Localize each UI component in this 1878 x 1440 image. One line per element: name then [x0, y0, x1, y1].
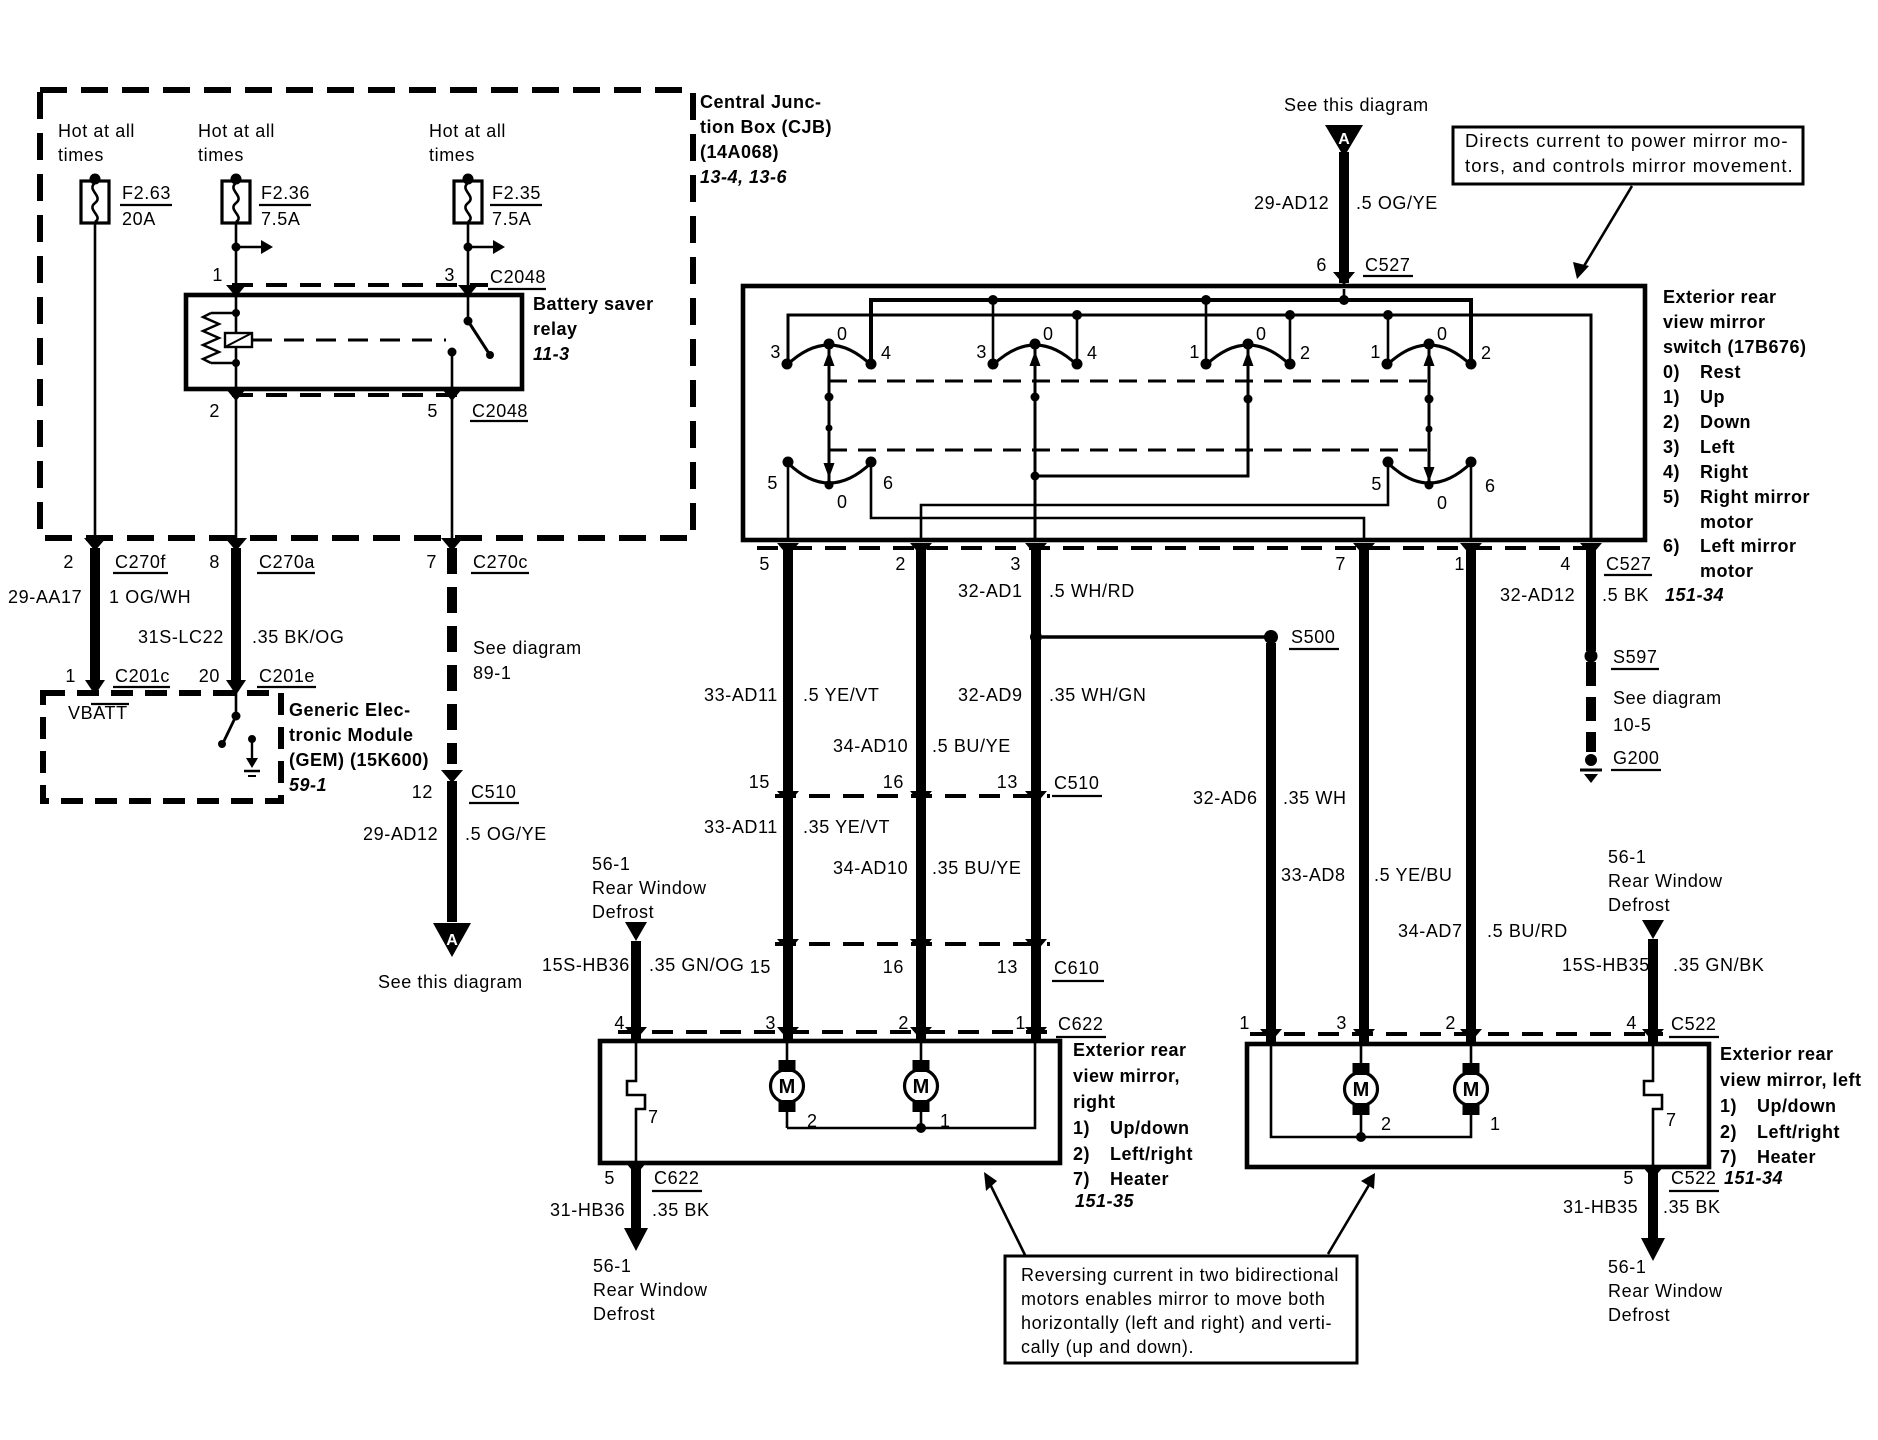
svg-text:34-AD10: 34-AD10	[833, 858, 908, 878]
off-page arrow A (bottom of left branch)	[433, 923, 471, 957]
relay coil box symbol	[225, 333, 252, 347]
svg-text:3: 3	[1336, 1013, 1347, 1033]
exterior rear view mirror right box	[600, 1041, 1060, 1163]
svg-text:See diagram: See diagram	[473, 638, 582, 658]
svg-text:20A: 20A	[122, 209, 156, 229]
svg-text:C2048: C2048	[472, 401, 528, 421]
svg-text:Hot at all: Hot at all	[429, 121, 506, 141]
svg-text:1): 1)	[1720, 1096, 1737, 1116]
svg-text:2: 2	[807, 1111, 818, 1131]
Generic Electronic Module (GEM) dashed box	[43, 693, 281, 801]
bus2 junction sw4 contact 1	[1383, 310, 1393, 320]
motor M up/down (right mirror)	[779, 1060, 796, 1072]
svg-text:7: 7	[648, 1107, 659, 1127]
branch wire to splice S500	[1042, 635, 1266, 638]
svg-text:C610: C610	[1054, 958, 1099, 978]
svg-text:Down: Down	[1700, 412, 1751, 432]
svg-text:G200: G200	[1613, 748, 1659, 768]
riser sw3 contact 1	[1205, 300, 1208, 364]
motor M left/right (right mirror)	[913, 1060, 930, 1072]
svg-text:1: 1	[1454, 554, 1465, 574]
switch pin 7 at C527	[1353, 543, 1375, 556]
thick wire 31-HB35 .35 BK	[1648, 1167, 1658, 1238]
svg-text:0: 0	[1437, 324, 1448, 344]
switch pin 3 at C527	[1025, 543, 1047, 556]
svg-text:1: 1	[940, 1111, 951, 1131]
svg-text:15S-HB36: 15S-HB36	[542, 955, 630, 975]
svg-text:34-AD7: 34-AD7	[1398, 921, 1463, 941]
svg-text:56-1: 56-1	[593, 1256, 631, 1276]
svg-text:M: M	[1353, 1079, 1370, 1101]
svg-text:31-HB36: 31-HB36	[550, 1200, 625, 1220]
motor return bus to pin 1 (right mirror)	[787, 1043, 1035, 1128]
svg-text:33-AD8: 33-AD8	[1281, 865, 1346, 885]
pointer line to left mirror box	[1328, 1185, 1369, 1254]
svg-text:6: 6	[1485, 476, 1496, 496]
Central Junction Box (CJB) dashed enclosure	[40, 90, 693, 538]
heater element (right mirror)	[627, 1043, 645, 1161]
svg-text:6): 6)	[1663, 536, 1680, 556]
svg-text:motor: motor	[1700, 512, 1754, 532]
thick wire 15S-HB35 .35 GN/BK	[1648, 939, 1658, 1044]
svg-text:1): 1)	[1663, 387, 1680, 407]
mechanical rail 2 dashed	[829, 449, 1429, 452]
svg-text:.35 GN/BK: .35 GN/BK	[1673, 955, 1764, 975]
svg-text:59-1: 59-1	[289, 775, 327, 795]
svg-text:16: 16	[883, 772, 904, 792]
svg-text:C527: C527	[1365, 255, 1410, 275]
svg-text:10-5: 10-5	[1613, 715, 1651, 735]
riser sw2 contact 3	[992, 300, 995, 361]
svg-text:See this diagram: See this diagram	[1284, 95, 1429, 115]
svg-text:.5 OG/YE: .5 OG/YE	[1356, 193, 1438, 213]
arrow at C522 pin 1	[1260, 1029, 1282, 1042]
connector C610 dashed line	[775, 942, 1050, 946]
thick wire 31-HB36 .35 BK	[631, 1163, 641, 1228]
exterior rear view mirror switch box (17B676)	[743, 286, 1645, 540]
svg-text:times: times	[198, 145, 244, 165]
svg-text:C527: C527	[1606, 554, 1651, 574]
fuse F2.63 top terminal	[90, 174, 101, 185]
branch arrowhead right (F2.35)	[493, 240, 505, 254]
pin 3 entry arrow into relay	[458, 285, 478, 297]
svg-text:5: 5	[759, 554, 770, 574]
fuse F2.63	[81, 181, 109, 223]
svg-text:.5 OG/YE: .5 OG/YE	[465, 824, 547, 844]
arrow at C510 pin 13	[1025, 791, 1047, 804]
svg-text:151-35: 151-35	[1075, 1191, 1135, 1211]
switch pin 2 at C527	[910, 543, 932, 556]
svg-text:tion Box (CJB): tion Box (CJB)	[700, 117, 832, 137]
wire relay pin 2 to C270a	[235, 395, 238, 538]
arrow to defrost circuit (left)	[1641, 1238, 1665, 1261]
bus1 junction sw2 contact 3	[988, 295, 998, 305]
feed wire inside switch box	[1343, 289, 1346, 300]
wire bottom rocker B contact 6 to pin 1	[1470, 462, 1473, 540]
svg-text:2): 2)	[1663, 412, 1680, 432]
svg-text:7: 7	[1335, 554, 1346, 574]
svg-text:Hot at all: Hot at all	[198, 121, 275, 141]
svg-text:2: 2	[895, 554, 906, 574]
rocker switch 3-0-4 (left/right, A)	[787, 345, 871, 365]
svg-text:31S-LC22: 31S-LC22	[138, 627, 224, 647]
svg-text:C510: C510	[1054, 773, 1099, 793]
wire fuse F2.63 to C270f	[94, 223, 97, 538]
svg-text:33-AD11: 33-AD11	[704, 685, 778, 705]
svg-text:A: A	[446, 932, 458, 949]
svg-text:5: 5	[767, 473, 778, 493]
arrow at C622 pin 2	[910, 1027, 932, 1040]
relay switch movable arm	[468, 321, 490, 355]
svg-text:0: 0	[1437, 493, 1448, 513]
wire bottom rocker A contact 5 to pin 5	[787, 462, 790, 540]
svg-text:4: 4	[614, 1013, 625, 1033]
arrowhead into GEM pin 1	[85, 680, 105, 695]
switch bus 2 to pin 4	[788, 315, 1591, 540]
arrow at C622 pin 4	[625, 1027, 647, 1040]
svg-text:M: M	[1463, 1079, 1480, 1101]
relay switch pivot	[464, 317, 473, 326]
svg-text:1: 1	[1370, 342, 1381, 362]
coil top connection	[211, 312, 236, 315]
sw4 wiper shaft with arrows	[1428, 344, 1431, 488]
svg-text:3: 3	[765, 1013, 776, 1033]
splice S597	[1585, 650, 1598, 663]
svg-text:.5 YE/BU: .5 YE/BU	[1374, 865, 1453, 885]
wire C270c connector arrow at CJB exit	[441, 538, 463, 551]
arrow at C610 pin 15	[777, 939, 799, 952]
note box: reversing current	[1005, 1256, 1357, 1363]
bus2 junction sw2 contact 4	[1072, 310, 1082, 320]
svg-text:Defrost: Defrost	[1608, 895, 1670, 915]
heater element (left mirror)	[1644, 1046, 1662, 1165]
GEM contact wire to ground	[251, 739, 253, 760]
relay coil resistor zigzag	[203, 313, 219, 363]
svg-text:Defrost: Defrost	[593, 1304, 655, 1324]
connector C622 dashed line	[618, 1030, 1050, 1034]
svg-text:56-1: 56-1	[1608, 847, 1646, 867]
relay coil box diagonal	[225, 333, 252, 347]
thick wire 34-AD10 (pin2 to right mirror)	[916, 548, 926, 1041]
svg-text:Left: Left	[1700, 437, 1735, 457]
pointer arrowhead (right mirror)	[984, 1172, 997, 1191]
svg-text:F2.36: F2.36	[261, 183, 310, 203]
svg-text:view mirror,: view mirror,	[1073, 1066, 1180, 1086]
svg-text:15: 15	[749, 772, 770, 792]
svg-text:view mirror, left: view mirror, left	[1720, 1070, 1862, 1090]
GEM ground arrowhead	[246, 758, 258, 768]
svg-text:3: 3	[976, 342, 987, 362]
svg-text:.5 BU/YE: .5 BU/YE	[932, 736, 1011, 756]
svg-text:7: 7	[1666, 1110, 1677, 1130]
svg-text:15: 15	[750, 957, 771, 977]
wire fuse F2.35 to relay pin 3	[467, 223, 470, 321]
svg-text:13-4, 13-6: 13-4, 13-6	[700, 167, 788, 187]
junction on fuse F2.35 wire	[464, 243, 473, 252]
svg-text:Directs current to power mirro: Directs current to power mirror mo-	[1465, 130, 1789, 151]
svg-text:Left/right: Left/right	[1757, 1122, 1840, 1142]
svg-text:32-AD1: 32-AD1	[958, 581, 1023, 601]
svg-text:Generic Elec-: Generic Elec-	[289, 700, 411, 720]
svg-text:motors enables mirror to move: motors enables mirror to move both	[1021, 1289, 1326, 1309]
wire 29-AA17 connector arrow at CJB exit	[84, 538, 106, 551]
wire fuse F2.36 to relay pin 1	[235, 223, 238, 286]
connector C2048 top dashed line	[232, 283, 488, 287]
svg-text:.5 BK: .5 BK	[1602, 585, 1649, 605]
svg-text:view mirror: view mirror	[1663, 312, 1766, 332]
arrow at C622 pin 3	[777, 1027, 799, 1040]
svg-text:7): 7)	[1073, 1169, 1090, 1189]
svg-text:C522: C522	[1671, 1014, 1716, 1034]
GEM switch arm end	[218, 740, 226, 748]
svg-text:(14A068): (14A068)	[700, 142, 779, 162]
svg-text:3: 3	[770, 342, 781, 362]
svg-text:C522: C522	[1671, 1168, 1716, 1188]
svg-text:2: 2	[1300, 343, 1311, 363]
svg-text:Right: Right	[1700, 462, 1748, 482]
switch pin 1 at C527	[1460, 543, 1482, 556]
svg-text:(GEM) (15K600): (GEM) (15K600)	[289, 750, 429, 770]
svg-text:4: 4	[1087, 343, 1098, 363]
svg-text:56-1: 56-1	[592, 854, 630, 874]
svg-text:Heater: Heater	[1110, 1169, 1169, 1189]
svg-text:151-34: 151-34	[1665, 585, 1724, 605]
GEM internal switch pivot	[232, 712, 241, 721]
svg-text:29-AD12: 29-AD12	[1254, 193, 1329, 213]
svg-text:tronic Module: tronic Module	[289, 725, 414, 745]
svg-text:1: 1	[65, 666, 76, 686]
svg-text:C201c: C201c	[115, 666, 170, 686]
svg-text:.35 WH/GN: .35 WH/GN	[1049, 685, 1146, 705]
arrow at C610 pin 16	[910, 939, 932, 952]
svg-text:Left/right: Left/right	[1110, 1144, 1193, 1164]
svg-text:7.5A: 7.5A	[492, 209, 531, 229]
svg-text:2): 2)	[1720, 1122, 1737, 1142]
connector C527 dashed line	[757, 546, 1600, 550]
svg-text:.35 WH: .35 WH	[1283, 788, 1347, 808]
svg-text:horizontally (left and right): horizontally (left and right) and verti-	[1021, 1313, 1332, 1333]
sw2 wiper shaft to pin 3	[1034, 344, 1037, 540]
battery saver relay box	[186, 295, 522, 389]
svg-text:1: 1	[1239, 1013, 1250, 1033]
svg-text:Rear Window: Rear Window	[1608, 1281, 1723, 1301]
svg-text:16: 16	[883, 957, 904, 977]
thick wire 29-AA17 1 OG/WH	[90, 548, 100, 682]
svg-text:A: A	[1338, 131, 1350, 148]
svg-text:tors, and controls mirror move: tors, and controls mirror movement.	[1465, 155, 1794, 176]
wire pin3 to motor M1 right	[786, 1043, 789, 1060]
svg-text:Hot at all: Hot at all	[58, 121, 135, 141]
svg-text:3): 3)	[1663, 437, 1680, 457]
junction on fuse F2.36 wire	[232, 243, 241, 252]
svg-text:cally (up and down).: cally (up and down).	[1021, 1337, 1194, 1357]
bottom rocker 5-0-6 (left motor select)	[1388, 463, 1471, 483]
svg-text:Reversing current in two bidir: Reversing current in two bidirectional	[1021, 1265, 1339, 1285]
arrow at C522 pin 3	[1353, 1029, 1375, 1042]
svg-text:times: times	[58, 145, 104, 165]
arrow at C622 pin 1	[1025, 1027, 1047, 1040]
arrow at C622 pin 5	[625, 1162, 647, 1175]
svg-text:S500: S500	[1291, 627, 1335, 647]
svg-text:C270a: C270a	[259, 552, 315, 572]
wire M1 left to bus	[1360, 1115, 1363, 1137]
svg-text:Exterior rear: Exterior rear	[1663, 287, 1777, 307]
svg-text:C2048: C2048	[490, 267, 546, 287]
arrow at C522 pin 5	[1642, 1166, 1664, 1179]
svg-text:C270f: C270f	[115, 552, 166, 572]
svg-text:89-1: 89-1	[473, 663, 511, 683]
svg-text:15S-HB35: 15S-HB35	[1562, 955, 1650, 975]
svg-text:switch (17B676): switch (17B676)	[1663, 337, 1807, 357]
svg-text:Rear Window: Rear Window	[1608, 871, 1723, 891]
svg-text:0: 0	[837, 492, 848, 512]
pointer line to right mirror box	[990, 1184, 1025, 1255]
svg-text:13: 13	[997, 957, 1018, 977]
pin 5 exit arrow	[442, 389, 462, 401]
svg-text:Heater: Heater	[1757, 1147, 1816, 1167]
wire bottom rocker B contact 5 to pin 2	[921, 466, 1388, 540]
svg-text:0: 0	[1256, 324, 1267, 344]
wire pin3 to motor M1 left	[1360, 1046, 1363, 1063]
branch wire to right arrow	[236, 246, 261, 249]
svg-text:2: 2	[1381, 1114, 1392, 1134]
svg-text:1): 1)	[1073, 1118, 1090, 1138]
svg-text:times: times	[429, 145, 475, 165]
wire M2 right to bus	[920, 1112, 923, 1128]
connector C510 dashed line	[775, 794, 1050, 798]
svg-text:See this diagram: See this diagram	[378, 972, 523, 992]
fuse F2.36	[222, 181, 250, 223]
thick wire 33-AD8 (pin7 to left mirror)	[1359, 548, 1369, 1044]
svg-text:5: 5	[1371, 474, 1382, 494]
svg-text:C510: C510	[471, 782, 516, 802]
svg-text:32-AD12: 32-AD12	[1500, 585, 1575, 605]
svg-text:151-34: 151-34	[1724, 1168, 1783, 1188]
svg-text:2: 2	[63, 552, 74, 572]
svg-text:Defrost: Defrost	[1608, 1305, 1670, 1325]
relay pin1-pin2 vertical wire	[235, 286, 238, 389]
junction M2 return (right)	[916, 1123, 926, 1133]
svg-text:C270c: C270c	[473, 552, 528, 572]
junction coil bottom	[232, 359, 240, 367]
riser sw4 contact 1	[1387, 315, 1390, 362]
thick wire 32-AD6 .35 WH (S500 to left mirror)	[1266, 643, 1276, 1044]
thick wire 33-AD11 (pin5 to right mirror)	[783, 548, 793, 1041]
pin 6 entry arrow into switch	[1333, 272, 1355, 285]
svg-text:S597: S597	[1613, 647, 1657, 667]
wire pin2 to motor M2 right	[920, 1043, 923, 1060]
arrowhead into GEM pin 20	[226, 680, 246, 695]
ground bar 2 (GEM)	[248, 775, 256, 777]
svg-text:3: 3	[1010, 554, 1021, 574]
svg-text:32-AD6: 32-AD6	[1193, 788, 1258, 808]
svg-text:VBATT: VBATT	[68, 703, 128, 723]
svg-text:0: 0	[1043, 324, 1054, 344]
svg-text:Rear Window: Rear Window	[592, 878, 707, 898]
dashed thick wire S597 to G200	[1586, 662, 1596, 752]
svg-text:Defrost: Defrost	[592, 902, 654, 922]
GEM internal switch arm	[223, 716, 236, 743]
svg-text:Rear Window: Rear Window	[593, 1280, 708, 1300]
bus1 junction feed	[1339, 295, 1349, 305]
bus2 junction sw3 contact 2	[1285, 310, 1295, 320]
dashed thick wire to other circuits	[447, 548, 457, 764]
svg-text:.5 BU/RD: .5 BU/RD	[1487, 921, 1568, 941]
svg-text:Rest: Rest	[1700, 362, 1741, 382]
svg-text:Left mirror: Left mirror	[1700, 536, 1797, 556]
thick wire 29-AD12 .5 OG/YE (feed)	[1339, 152, 1349, 283]
svg-text:4: 4	[1560, 554, 1571, 574]
branch wire to right arrow (F2.35)	[468, 246, 493, 249]
svg-text:1: 1	[1189, 342, 1200, 362]
svg-text:6: 6	[1316, 255, 1327, 275]
svg-text:.35 BU/YE: .35 BU/YE	[932, 858, 1021, 878]
thick wire 15S-HB36 .35 GN/OG	[631, 941, 641, 1041]
relay pin 5 wire inside box	[451, 352, 454, 389]
svg-text:7.5A: 7.5A	[261, 209, 300, 229]
pin 1 riser and motor return bus (left mirror)	[1271, 1046, 1471, 1137]
sw3 wiper shaft joining sw2 line	[1035, 344, 1248, 476]
pin 1 entry arrow into relay	[226, 285, 246, 297]
thick wire 29-AD12 .5 OG/YE (left)	[447, 781, 457, 922]
svg-text:1: 1	[1490, 1114, 1501, 1134]
mechanical rail 1 dashed	[829, 380, 1429, 383]
svg-text:.5 YE/VT: .5 YE/VT	[803, 685, 880, 705]
switch pin 5 at C527	[777, 543, 799, 556]
connector arrow at C510 pin 12	[441, 770, 463, 783]
svg-text:Exterior rear: Exterior rear	[1720, 1044, 1834, 1064]
connector C522 dashed line	[1250, 1032, 1663, 1036]
svg-text:2: 2	[1481, 343, 1492, 363]
svg-text:2: 2	[209, 401, 220, 421]
wire pin2 to motor M2 left	[1470, 1046, 1473, 1063]
svg-text:C622: C622	[1058, 1014, 1103, 1034]
arrow at C522 pin 4	[1642, 1029, 1664, 1042]
svg-text:4: 4	[1626, 1013, 1637, 1033]
bottom rocker 5-0-6 (right motor select)	[788, 463, 871, 483]
splice S500	[1264, 630, 1278, 644]
pointer arrowhead at switch box	[1573, 262, 1589, 279]
branch arrowhead right	[261, 240, 273, 254]
wire bottom rocker A contact 6 to pin 7	[871, 462, 1364, 540]
svg-text:Central Junc-: Central Junc-	[700, 92, 822, 112]
riser sw3 contact 2	[1289, 315, 1292, 362]
fuse F2.35 top terminal	[463, 174, 474, 185]
connector C2048 bottom dashed line	[232, 393, 466, 397]
riser sw2 contact 4	[1076, 315, 1079, 361]
svg-text:4): 4)	[1663, 462, 1680, 482]
svg-text:2): 2)	[1073, 1144, 1090, 1164]
switch bus 1 (from pin 6)	[871, 300, 1471, 360]
svg-text:See diagram: See diagram	[1613, 688, 1722, 708]
svg-text:1 OG/WH: 1 OG/WH	[109, 587, 191, 607]
svg-text:56-1: 56-1	[1608, 1257, 1646, 1277]
svg-text:29-AA17: 29-AA17	[8, 587, 82, 607]
svg-text:motor: motor	[1700, 561, 1754, 581]
bus1 junction sw3 contact 1	[1201, 295, 1211, 305]
svg-text:.35 BK: .35 BK	[652, 1200, 710, 1220]
junction coil top	[232, 309, 240, 317]
svg-text:31-HB35: 31-HB35	[1563, 1197, 1638, 1217]
pointer arrowhead (left mirror)	[1361, 1173, 1375, 1189]
arrow at C610 pin 13	[1025, 939, 1047, 952]
svg-text:.5 WH/RD: .5 WH/RD	[1049, 581, 1135, 601]
relay control dashed line	[252, 339, 446, 342]
pin 2 exit arrow	[226, 389, 246, 401]
svg-text:7): 7)	[1720, 1147, 1737, 1167]
relay switch arm end	[486, 351, 494, 359]
svg-text:F2.63: F2.63	[122, 183, 171, 203]
